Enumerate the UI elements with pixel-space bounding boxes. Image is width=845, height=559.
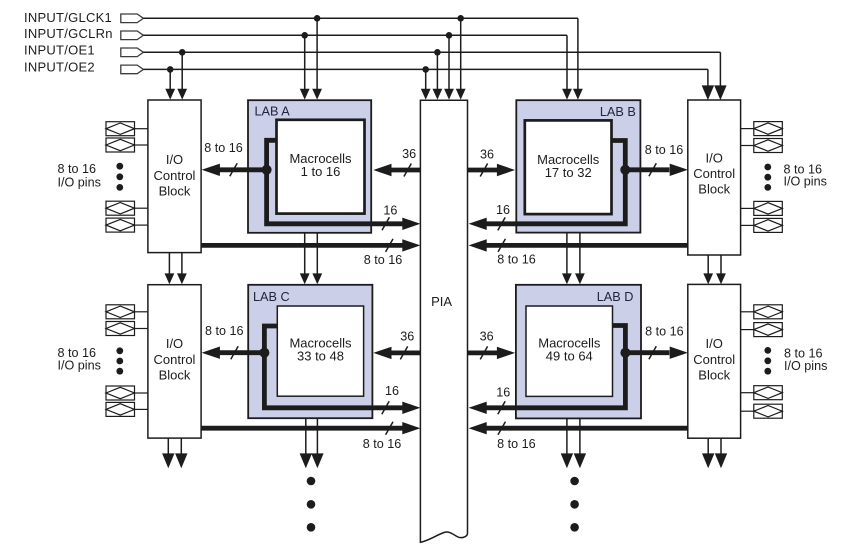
left row2 I/O pin 4 [106,402,148,416]
right row2 I/O pin 1 [741,305,783,319]
slash tick long 8to16 row1 right [498,239,505,252]
PIA block [420,100,467,542]
wire LAB C down a [305,418,307,454]
wire drop OE2 to PIA [425,69,427,89]
svg-text:36: 36 [400,330,414,344]
wire LAB A to LAB C a [304,233,306,274]
slash tick 16 A [382,217,389,230]
LAB C feedback bus path [264,326,403,408]
wire drop GCLRn to PIA [448,35,450,89]
bus 8 to 16 right I/O row2 to PIA [486,426,688,431]
LAB A block [248,100,371,233]
right row2 pin dots [764,347,771,375]
svg-text:8 to 16: 8 to 16 [364,253,403,267]
svg-text:I/O: I/O [706,336,723,351]
wire GCLRn horizontal [143,34,567,36]
svg-text:8 to 16: 8 to 16 [497,252,536,266]
slash tick 36 D [480,346,487,359]
slash tick 16 B [498,217,505,230]
I/O Control Block right row2 [688,284,741,438]
junction OE1 to left I/O [179,49,186,56]
svg-text:Control: Control [154,168,196,183]
LAB C block [248,285,372,418]
wire right I/O row1 to row2 b [720,255,722,274]
svg-text:I/O pins: I/O pins [58,175,101,189]
svg-text:I/O: I/O [706,151,723,166]
svg-text:36: 36 [480,330,494,344]
svg-text:LAB B: LAB B [600,105,636,119]
svg-text:I/O: I/O [166,152,183,167]
junction GLCK1 to PIA [457,15,464,22]
LAB B block [516,100,640,232]
macrocells box 33 to 48 [277,306,363,396]
left row1 pin dots [116,163,123,191]
svg-text:16: 16 [385,384,399,398]
bus 36 PIA to LAB C [391,350,421,355]
wire OE1 horizontal [143,51,720,53]
input pin INPUT/OE2 [121,65,144,74]
bus 8 to 16 left I/O row1 to PIA [201,243,403,248]
svg-text:16: 16 [383,203,397,217]
svg-text:36: 36 [402,147,416,161]
junction LAB A bus [262,165,272,175]
left row2 pin dots [116,347,123,374]
I/O Control Block right row1 [688,100,741,255]
bus 36 PIA to LAB D [468,350,498,355]
junction OE2 to PIA [422,66,429,73]
svg-text:17 to 32: 17 to 32 [545,165,592,180]
svg-text:Block: Block [698,182,730,197]
slash tick 16 C [382,401,389,414]
input pin INPUT/GCLRn [121,31,144,40]
bus 16 arrowhead LAB C to PIA [402,402,420,414]
wire LAB B to LAB D a [566,233,568,274]
bus 8 to 16 LAB D to right I/O [625,350,669,355]
svg-text:Control: Control [154,352,196,367]
svg-text:49 to 64: 49 to 64 [546,348,593,363]
svg-text:LAB A: LAB A [255,104,291,118]
left row2 I/O pin 2 [106,322,148,336]
right row1 pin dots [764,164,771,191]
wire drop OE2 to left I/O block [169,69,171,89]
right row1 I/O pin 3 [741,201,783,215]
wire left I/O row1 to row2 a [168,253,170,274]
svg-text:8 to 16: 8 to 16 [645,324,684,338]
slash tick 36 A [404,164,411,177]
I/O Control Block left row2 [148,285,201,438]
I/O Control Block left row1 [148,100,201,253]
svg-text:1 to 16: 1 to 16 [301,164,341,179]
wire left I/O row1 to row2 b [181,253,183,274]
bus 16 arrowhead LAB D to PIA [469,402,487,414]
svg-text:I/O: I/O [166,336,183,351]
svg-text:INPUT/GCLRn: INPUT/GCLRn [24,26,113,41]
wire left I/O row2 down b [180,438,182,454]
bus 36 PIA to LAB A [391,168,421,173]
bus 8 to 16 LAB C to left I/O [219,350,264,355]
junction GLCK1 to LAB A [314,15,321,22]
wire right I/O row1 to row2 a [707,255,709,274]
right row2 I/O pin 4 [741,404,783,418]
svg-text:36: 36 [480,147,494,161]
slash tick 16 D [498,401,505,414]
svg-text:LAB D: LAB D [597,290,634,304]
svg-text:33 to 48: 33 to 48 [297,348,344,363]
wire right I/O row2 down a [707,438,709,454]
svg-text:INPUT/OE1: INPUT/OE1 [24,43,95,58]
svg-text:Block: Block [159,183,191,198]
wire OE1 drop to right I/O block [719,52,721,86]
slash tick 8to16 B [649,163,656,176]
slash tick long 8to16 row2 right [498,422,505,435]
junction LAB C bus [259,348,269,358]
slash tick long 8to16 row1 left [386,239,393,252]
svg-text:Block: Block [159,367,191,382]
bus 8 to 16 right I/O row1 to PIA [486,243,688,248]
right row1 I/O pin 2 [741,139,783,153]
junction OE1 to PIA [434,49,441,56]
bus 8 to 16 LAB A to left I/O [219,167,267,172]
svg-text:8 to 16: 8 to 16 [363,437,402,451]
wire GLCK1 horizontal [143,17,578,19]
wire LAB D down b [579,418,581,454]
LAB D feedback bus path [486,326,625,408]
macrocells box 49 to 64 [526,306,613,396]
wire drop GCLRn to LAB A [304,35,306,89]
slash tick 8to16 A [230,163,237,176]
left row1 I/O pin 1 [106,122,148,136]
wire LAB D down a [566,418,568,454]
wire drop OE1 to left I/O block [181,52,183,89]
wire OE2 horizontal [143,68,708,70]
svg-text:PIA: PIA [431,294,452,309]
svg-text:INPUT/OE2: INPUT/OE2 [24,59,95,74]
left row1 I/O pin 3 [106,201,148,215]
bus 8 to 16 left I/O row2 to PIA [201,426,403,431]
slash tick 8to16 D [649,346,656,359]
slash tick long 8to16 row2 left [386,422,393,435]
left row2 I/O pin 3 [106,386,148,400]
wire drop OE1 to PIA [436,52,438,89]
input pin INPUT/GLCK1 [121,14,144,23]
wire LAB B to LAB D b [579,233,581,274]
left row2 I/O pin 1 [106,305,148,319]
LAB A feedback bus path [267,140,403,224]
junction LAB D bus [620,348,630,358]
macrocells box 17 to 32 [525,120,612,214]
bus 16 arrowhead LAB A to PIA [402,218,420,230]
svg-text:Control: Control [693,352,735,367]
left row1 I/O pin 2 [106,138,148,152]
LAB B feedback bus path [486,141,625,224]
right row1 I/O pin 1 [741,122,783,136]
svg-text:INPUT/GLCK1: INPUT/GLCK1 [24,10,112,25]
wire LAB A to LAB C b [316,233,318,274]
svg-text:I/O pins: I/O pins [784,175,827,189]
wire right I/O row2 down b [720,438,722,454]
left row1 I/O pin 4 [106,218,148,232]
junction GCLRn to PIA [446,32,453,39]
right row1 I/O pin 4 [741,218,783,232]
LAB D block [516,285,641,419]
svg-text:8 to 16: 8 to 16 [205,324,244,338]
svg-text:LAB C: LAB C [253,290,290,304]
bus 8 to 16 LAB B to right I/O [625,167,669,172]
wire left I/O row2 down a [167,438,169,454]
svg-text:8 to 16: 8 to 16 [204,141,243,155]
wire drop GLCK1 to LAB A [316,18,318,89]
slash tick 36 B [480,164,487,177]
right row2 I/O pin 3 [741,386,783,400]
svg-text:Block: Block [698,367,730,382]
wire OE2 drop to right I/O block [707,69,709,86]
ellipsis dots below LAB C [307,477,316,486]
wire drop GLCK1 to PIA [460,18,462,89]
junction GCLRn to LAB A [301,32,308,39]
wire GLCK1 drop to LAB B [577,18,579,89]
slash tick 36 C [400,346,407,359]
right row2 I/O pin 2 [741,323,783,337]
svg-text:8 to 16: 8 to 16 [58,162,97,176]
macrocells box 1 to 16 [277,120,365,214]
wire LAB C down b [316,418,318,454]
junction OE2 to left I/O [167,66,174,73]
svg-text:8 to 16: 8 to 16 [497,437,536,451]
svg-text:8 to 16: 8 to 16 [645,143,684,157]
ellipsis dots below LAB D [570,477,579,486]
slash tick 8to16 C [231,346,238,359]
svg-text:I/O pins: I/O pins [58,359,101,373]
bus 36 PIA to LAB B [468,168,498,173]
input pin INPUT/OE1 [121,48,144,57]
wire GCLRn drop to LAB B [566,35,568,89]
svg-text:I/O pins: I/O pins [784,359,827,373]
junction LAB B bus [620,165,630,175]
svg-text:Control: Control [693,166,735,181]
svg-text:16: 16 [496,203,510,217]
bus 16 arrowhead LAB B to PIA [469,218,487,230]
svg-text:16: 16 [496,386,510,400]
